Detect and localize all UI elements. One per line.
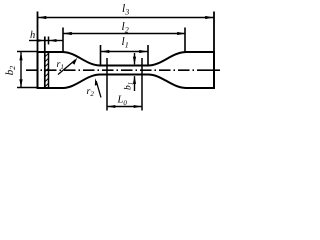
gauge mark L0 right bbox=[141, 58, 143, 111]
extension line b2 bottom bbox=[17, 87, 37, 89]
extension line l1 left bbox=[100, 45, 102, 65]
svg-text:h: h bbox=[30, 30, 35, 41]
gauge mark L0 left bbox=[106, 58, 108, 111]
dimension line l1 bbox=[101, 51, 148, 53]
clamp line right bbox=[48, 37, 50, 88]
extension line left edge (l3) bbox=[37, 12, 39, 53]
extension line l2 right bbox=[184, 28, 186, 53]
dimension h right segment bbox=[49, 40, 63, 42]
dimension b1 top arrow bbox=[134, 53, 136, 64]
dimension h bar bbox=[45, 40, 49, 42]
leader r1 bbox=[58, 60, 76, 75]
centerline (dash-dot axis) bbox=[26, 69, 209, 71]
extension line l1 right bbox=[147, 45, 149, 65]
dimension h left segment bbox=[29, 40, 45, 42]
dimension line L0 bbox=[108, 106, 142, 108]
extension line b2 top bbox=[17, 51, 37, 53]
dimension b1 bottom arrow bbox=[134, 76, 136, 91]
hatch between clamp lines bbox=[45, 53, 49, 87]
specimen outline bbox=[38, 52, 215, 88]
extension line l2 left bbox=[62, 28, 64, 53]
dimension line l2 bbox=[64, 33, 186, 35]
dimension line b2 bbox=[20, 52, 22, 87]
clamp line left bbox=[44, 37, 46, 88]
extension line right edge (l3) bbox=[213, 12, 215, 53]
leader r2 bbox=[96, 81, 101, 98]
dimension line l3 bbox=[38, 17, 214, 19]
